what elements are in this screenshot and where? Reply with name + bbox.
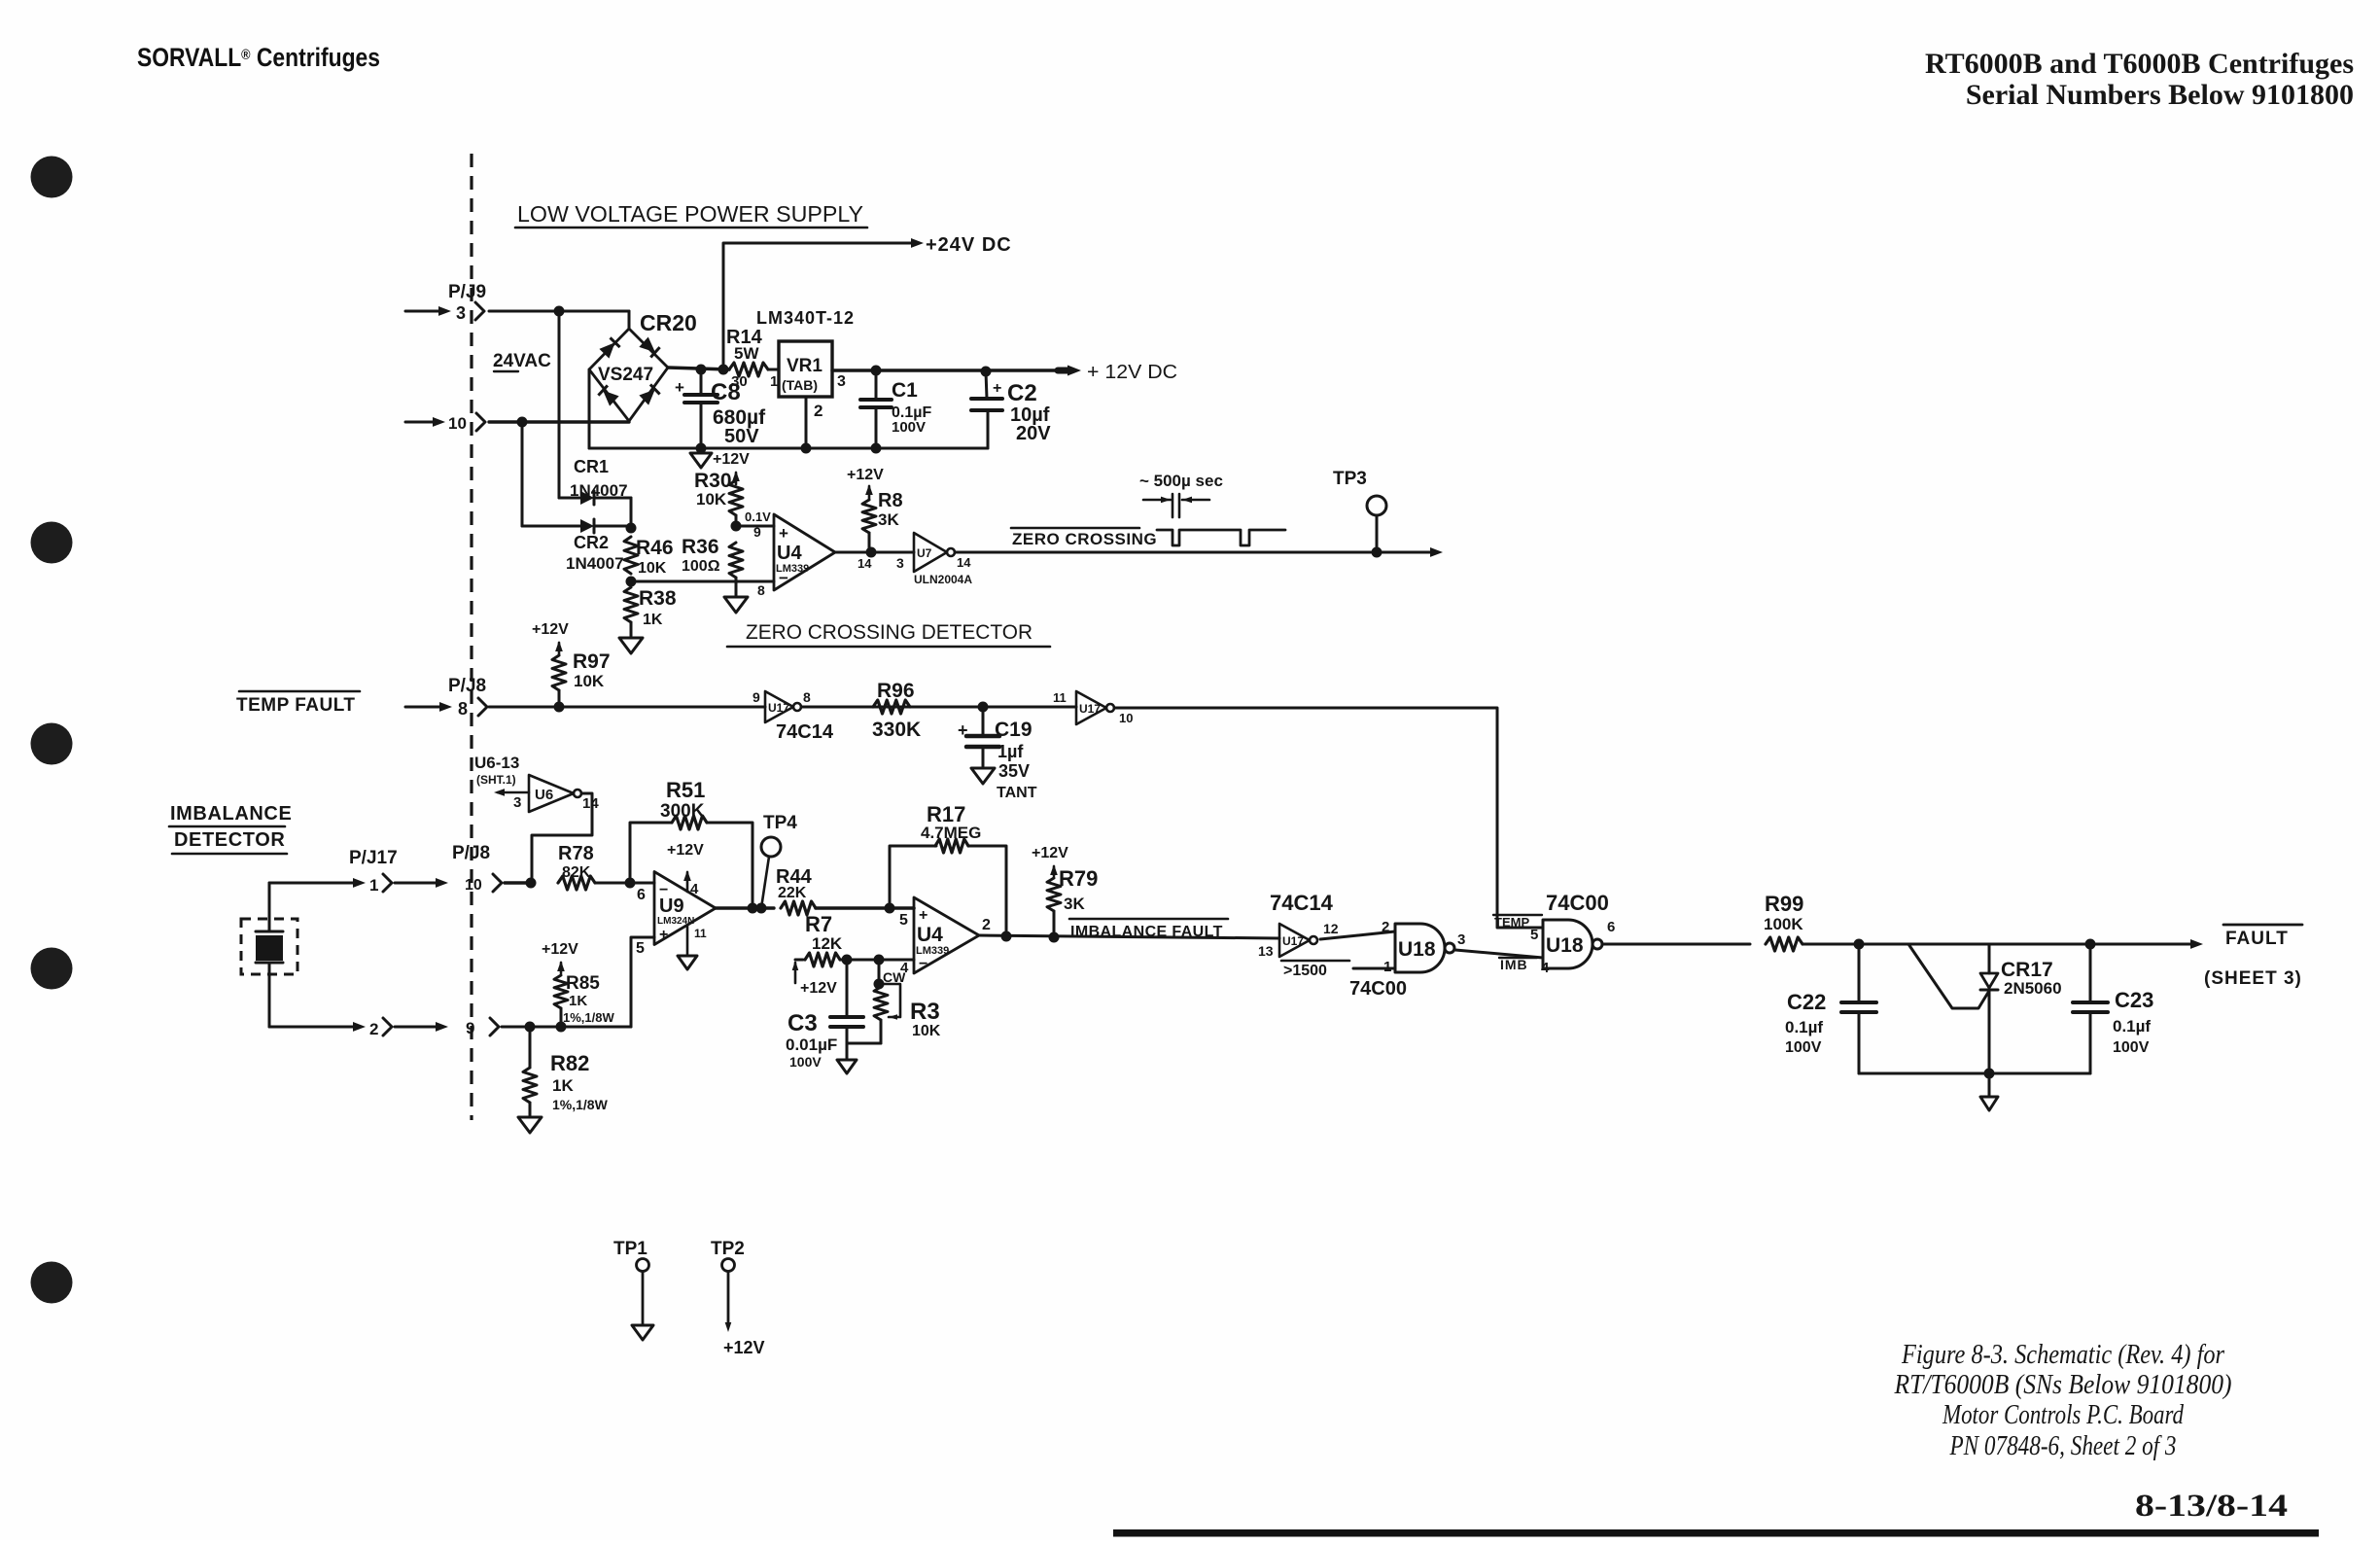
svg-text:+12V: +12V [532, 621, 569, 638]
svg-text:+: + [779, 524, 788, 543]
svg-text:330K: 330K [872, 719, 921, 741]
svg-text:R51: R51 [666, 778, 705, 802]
svg-text:R85: R85 [566, 973, 600, 994]
svg-text:100V: 100V [789, 1054, 822, 1070]
svg-text:R7: R7 [805, 912, 832, 936]
svg-text:74C14: 74C14 [776, 721, 834, 743]
svg-text:2: 2 [1382, 919, 1389, 935]
svg-text:1: 1 [369, 876, 378, 895]
svg-text:6: 6 [637, 887, 646, 903]
svg-text:2N5060: 2N5060 [2004, 979, 2062, 998]
svg-text:2: 2 [982, 917, 991, 933]
svg-text:74C00: 74C00 [1546, 891, 1609, 915]
svg-text:+12V: +12V [542, 941, 578, 958]
svg-text:+12V: +12V [713, 451, 750, 468]
svg-text:R97: R97 [573, 650, 611, 673]
svg-text:4.7MEG: 4.7MEG [921, 824, 981, 842]
svg-text:R82: R82 [550, 1051, 589, 1075]
svg-text:TANT: TANT [997, 785, 1037, 801]
svg-text:74C14: 74C14 [1270, 891, 1334, 915]
svg-text:RT6000B and T6000B Centrifuges: RT6000B and T6000B Centrifuges [1925, 48, 2354, 80]
svg-text:+: + [659, 927, 668, 943]
svg-text:~ 500µ sec: ~ 500µ sec [1139, 472, 1223, 490]
svg-text:3K: 3K [878, 510, 899, 529]
svg-text:(SHT.1): (SHT.1) [476, 773, 516, 787]
svg-text:P/J8: P/J8 [452, 843, 490, 863]
svg-text:Motor Controls P.C. Board: Motor Controls P.C. Board [1942, 1400, 2185, 1430]
svg-text:R79: R79 [1059, 866, 1098, 891]
svg-text:IMB: IMB [1500, 957, 1528, 972]
svg-text:3K: 3K [1064, 895, 1085, 913]
svg-text:24VAC: 24VAC [493, 351, 551, 371]
svg-text:10: 10 [465, 877, 482, 894]
svg-text:1N4007: 1N4007 [570, 481, 628, 500]
svg-text:U9: U9 [659, 895, 684, 917]
svg-text:TP4: TP4 [763, 813, 797, 833]
svg-text:IMBALANCE FAULT: IMBALANCE FAULT [1070, 924, 1223, 940]
svg-text:5: 5 [1530, 927, 1538, 943]
svg-text:P/J9: P/J9 [448, 282, 486, 302]
svg-text:12K: 12K [812, 934, 843, 953]
svg-text:14: 14 [957, 555, 971, 570]
svg-text:R30: R30 [694, 470, 732, 492]
svg-text:1%,1/8W: 1%,1/8W [552, 1097, 609, 1112]
svg-text:LOW VOLTAGE POWER SUPPLY: LOW VOLTAGE POWER SUPPLY [517, 201, 863, 227]
svg-text:10: 10 [1119, 711, 1133, 725]
svg-text:5W: 5W [734, 344, 759, 363]
svg-text:(SHEET 3): (SHEET 3) [2204, 968, 2302, 989]
svg-text:3: 3 [513, 794, 521, 811]
svg-text:100K: 100K [1764, 915, 1803, 933]
svg-text:ZERO CROSSING: ZERO CROSSING [1012, 530, 1157, 548]
svg-text:ULN2004A: ULN2004A [914, 573, 972, 586]
svg-text:VR1: VR1 [787, 356, 822, 376]
svg-text:ZERO CROSSING DETECTOR: ZERO CROSSING DETECTOR [746, 621, 1032, 644]
svg-text:Figure 8-3. Schematic (Rev. 4): Figure 8-3. Schematic (Rev. 4) for [1901, 1340, 2224, 1370]
svg-text:CR2: CR2 [574, 533, 609, 552]
svg-text:0.1µf: 0.1µf [2113, 1017, 2151, 1036]
svg-text:0.01µF: 0.01µF [786, 1036, 837, 1054]
svg-text:1K: 1K [569, 993, 587, 1009]
svg-text:2: 2 [814, 402, 822, 420]
svg-text:+: + [993, 380, 1001, 397]
svg-text:LM339: LM339 [776, 563, 809, 575]
svg-text:3: 3 [837, 373, 846, 390]
svg-text:0.1V: 0.1V [745, 509, 771, 524]
svg-text:9: 9 [466, 1019, 474, 1037]
svg-text:300K: 300K [660, 801, 705, 822]
svg-text:+: + [958, 720, 968, 740]
svg-text:9: 9 [752, 689, 760, 705]
svg-text:5: 5 [899, 912, 908, 929]
svg-text:U18: U18 [1546, 934, 1584, 957]
svg-text:U6-13: U6-13 [474, 754, 519, 772]
svg-text:+12V: +12V [667, 842, 704, 859]
svg-text:10K: 10K [912, 1023, 941, 1039]
svg-text:Serial Numbers Below 9101800: Serial Numbers Below 9101800 [1966, 79, 2354, 111]
svg-text:11: 11 [694, 927, 707, 940]
svg-text:P/J8: P/J8 [448, 676, 486, 696]
svg-text:+ 12V DC: + 12V DC [1087, 362, 1177, 383]
svg-text:CW: CW [883, 969, 906, 985]
svg-text:1: 1 [1383, 959, 1391, 975]
svg-text:LM340T-12: LM340T-12 [756, 308, 855, 328]
svg-text:82K: 82K [562, 864, 591, 881]
svg-text:1%,1/8W: 1%,1/8W [563, 1010, 614, 1025]
svg-text:100V: 100V [892, 419, 926, 436]
svg-text:R46: R46 [636, 537, 674, 559]
svg-text:C3: C3 [787, 1010, 818, 1036]
svg-text:1µf: 1µf [997, 742, 1024, 761]
svg-text:6: 6 [1607, 919, 1615, 935]
svg-text:5: 5 [636, 940, 645, 957]
svg-text:CR17: CR17 [2001, 959, 2053, 981]
svg-text:+: + [919, 907, 927, 924]
svg-text:1K: 1K [552, 1076, 574, 1095]
svg-text:8: 8 [803, 689, 811, 705]
svg-text:8: 8 [757, 582, 765, 598]
svg-text:8: 8 [458, 699, 468, 719]
svg-text:4: 4 [690, 881, 699, 897]
svg-text:U7: U7 [917, 546, 932, 560]
svg-text:C22: C22 [1787, 990, 1826, 1014]
svg-text:U18: U18 [1398, 938, 1436, 961]
svg-text:10K: 10K [638, 560, 667, 577]
svg-text:8-13/8-14: 8-13/8-14 [2135, 1489, 2288, 1524]
svg-text:100Ω: 100Ω [682, 558, 720, 575]
svg-text:U17: U17 [768, 701, 789, 715]
svg-text:12: 12 [1323, 921, 1339, 936]
svg-text:0.1µf: 0.1µf [1785, 1018, 1823, 1036]
svg-text:9: 9 [753, 524, 761, 540]
svg-text:TP1: TP1 [613, 1239, 647, 1259]
svg-text:20V: 20V [1016, 423, 1051, 444]
svg-text:TEMP: TEMP [1494, 915, 1529, 930]
svg-text:FAULT: FAULT [2225, 929, 2289, 949]
svg-text:CR1: CR1 [574, 457, 609, 476]
svg-text:3: 3 [896, 555, 904, 571]
svg-text:R99: R99 [1765, 892, 1803, 916]
svg-text:+24V DC: +24V DC [926, 234, 1012, 256]
svg-text:22K: 22K [778, 885, 807, 901]
svg-text:VS247: VS247 [598, 365, 653, 385]
svg-text:10: 10 [448, 414, 467, 433]
svg-text:1N4007: 1N4007 [566, 554, 624, 573]
svg-text:C23: C23 [2115, 988, 2153, 1012]
svg-text:+: + [675, 378, 684, 397]
svg-text:3: 3 [1457, 931, 1465, 948]
svg-text:TEMP FAULT: TEMP FAULT [236, 695, 356, 716]
svg-text:C19: C19 [995, 719, 1032, 741]
svg-text:74C00: 74C00 [1349, 978, 1407, 1000]
svg-text:14: 14 [857, 556, 872, 571]
svg-text:C1: C1 [892, 379, 918, 402]
svg-text:100V: 100V [1785, 1039, 1822, 1056]
svg-text:U6: U6 [535, 787, 553, 803]
svg-text:13: 13 [1258, 943, 1274, 959]
svg-text:+12V: +12V [723, 1338, 765, 1357]
svg-text:P/J17: P/J17 [349, 848, 398, 868]
svg-text:R38: R38 [639, 587, 677, 610]
svg-text:R36: R36 [682, 536, 719, 558]
svg-text:R78: R78 [558, 843, 594, 864]
svg-text:PN 07848-6, Sheet 2 of 3: PN 07848-6, Sheet 2 of 3 [1949, 1431, 2177, 1461]
svg-text:TP3: TP3 [1333, 469, 1367, 489]
svg-text:3: 3 [456, 303, 466, 323]
svg-text:2: 2 [369, 1020, 378, 1038]
svg-text:U4: U4 [777, 543, 802, 564]
svg-text:(TAB): (TAB) [782, 377, 818, 393]
svg-text:>1500: >1500 [1283, 963, 1327, 979]
svg-text:IMBALANCE: IMBALANCE [170, 803, 292, 825]
svg-text:U17: U17 [1282, 934, 1304, 948]
svg-text:TP2: TP2 [711, 1239, 745, 1259]
svg-text:+12V: +12V [847, 467, 884, 483]
svg-text:C2: C2 [1007, 380, 1037, 406]
svg-text:R96: R96 [877, 680, 915, 702]
svg-text:CR20: CR20 [640, 310, 697, 335]
svg-text:11: 11 [1053, 690, 1067, 705]
svg-text:10K: 10K [696, 490, 727, 509]
svg-text:−: − [919, 956, 927, 972]
svg-text:R3: R3 [910, 999, 940, 1025]
svg-text:R8: R8 [878, 490, 903, 511]
svg-text:1K: 1K [643, 612, 663, 628]
svg-text:RT/T6000B (SNs Below 9101800): RT/T6000B (SNs Below 9101800) [1894, 1370, 2232, 1400]
svg-text:LM339: LM339 [916, 945, 949, 957]
svg-text:+12V: +12V [1032, 845, 1068, 861]
svg-text:LM324N: LM324N [657, 916, 694, 927]
svg-text:DETECTOR: DETECTOR [174, 829, 285, 851]
svg-text:1: 1 [770, 373, 778, 390]
svg-text:SORVALL® Centrifuges: SORVALL® Centrifuges [137, 43, 380, 72]
svg-text:100V: 100V [2113, 1039, 2150, 1056]
svg-text:U4: U4 [917, 924, 943, 946]
svg-text:50V: 50V [724, 426, 759, 447]
svg-text:U17: U17 [1079, 702, 1101, 716]
svg-text:35V: 35V [998, 761, 1030, 781]
svg-text:+12V: +12V [800, 980, 837, 997]
svg-text:10K: 10K [574, 672, 605, 690]
svg-text:C8: C8 [711, 379, 741, 405]
